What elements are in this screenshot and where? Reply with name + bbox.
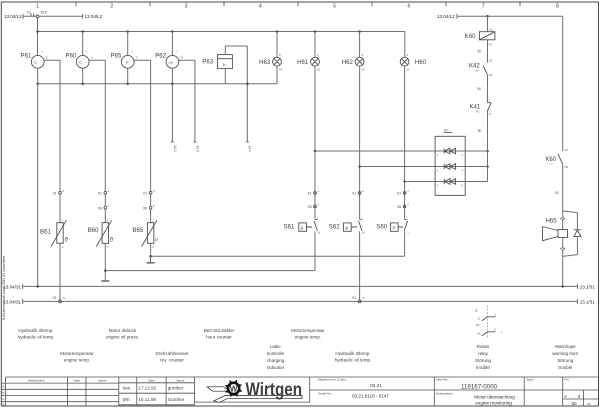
function text column S61 <box>291 328 325 340</box>
svg-text:Hydraulik öltemp.: Hydraulik öltemp. <box>18 328 53 333</box>
svg-text:G: G <box>136 55 138 59</box>
lamp H60 oil pressure warning <box>400 53 426 71</box>
gauge P65 engine oil pressure <box>111 50 138 75</box>
svg-text:b: b <box>2 391 4 395</box>
svg-text:Hydraulik öltemp.: Hydraulik öltemp. <box>335 351 370 356</box>
function text column S62 <box>335 351 372 363</box>
svg-text:Störung: Störung <box>475 358 491 363</box>
svg-text:03.21.0118 - 0147: 03.21.0118 - 0147 <box>352 393 389 398</box>
drawn/checked sub-table <box>119 377 195 405</box>
switch column S61: connectors X1 X6 <box>307 189 319 196</box>
svg-text:X1: X1 <box>397 192 401 196</box>
wire bus L2 top <box>38 31 405 33</box>
connector plug below horn <box>560 246 565 250</box>
contact K41 (NC) <box>469 103 491 117</box>
svg-text:bew.: bew. <box>123 385 131 390</box>
diode D3 in block row 3 <box>435 179 465 188</box>
svg-text:X1: X1 <box>98 191 102 195</box>
svg-text:Ident-No.:: Ident-No.: <box>436 378 450 382</box>
svg-text:trouble: trouble <box>558 365 572 370</box>
wire P63 top bend to off-sheet arrow <box>225 46 251 152</box>
wire H61 column down to switch S61 <box>314 66 316 219</box>
svg-text:13.1/31: 13.1/31 <box>580 285 596 290</box>
wire L2 to right stub with off-sheet label <box>39 14 103 19</box>
wire K42 to K41 <box>477 75 490 103</box>
svg-text:1B: 1B <box>474 309 477 313</box>
svg-text:H60: H60 <box>415 59 427 66</box>
sensor column B61: connector X1 <box>52 189 64 196</box>
svg-text:kontrolle: kontrolle <box>267 351 285 356</box>
svg-text:X1: X1 <box>307 192 311 196</box>
node L2 feed left: incoming wire from sheet 13.04 <box>4 14 36 19</box>
svg-text:Name: Name <box>98 378 107 382</box>
svg-text:S61: S61 <box>284 224 295 231</box>
svg-text:engine oil press.: engine oil press. <box>106 335 139 340</box>
svg-text:2: 2 <box>110 4 113 10</box>
svg-text:50: 50 <box>477 87 481 91</box>
spal / pruef cells <box>524 377 598 406</box>
svg-text:Serial-No.:: Serial-No.: <box>318 392 333 396</box>
machine key / serial cell <box>310 377 599 406</box>
svg-text:Motortemperatur: Motortemperatur <box>291 328 325 333</box>
svg-text:Modification: Modification <box>28 378 45 382</box>
svg-text:hydraulic oil temp.: hydraulic oil temp. <box>18 335 55 340</box>
svg-text:93: 93 <box>555 191 559 195</box>
wire right branch down to horn contact <box>562 16 564 151</box>
svg-text:P65: P65 <box>111 53 122 60</box>
wire S62 down to net X1/31 <box>359 231 361 300</box>
svg-text:H61: H61 <box>297 59 309 66</box>
svg-text:B61: B61 <box>40 228 51 235</box>
function text column P61 <box>18 328 55 340</box>
wire coil to contact K42 <box>477 40 492 63</box>
function text column P65 <box>106 328 139 340</box>
svg-text:Wirtgen: Wirtgen <box>246 380 303 400</box>
svg-text:Relais: Relais <box>477 344 490 349</box>
temperature sensor B60 <box>88 194 114 249</box>
revision row letters a-d <box>2 385 4 407</box>
svg-text:5: 5 <box>333 4 336 10</box>
svg-text:Machine Key Codes:: Machine Key Codes: <box>318 378 347 382</box>
wire B65 to ground and to S60 <box>149 243 152 262</box>
wire P65 right terminal to sensor column <box>134 60 151 191</box>
diode D2 in block row 2 <box>435 164 465 173</box>
wire diode rows right leads to relay chain <box>465 151 487 182</box>
svg-text:6: 6 <box>407 4 410 10</box>
svg-text:S62: S62 <box>329 224 340 231</box>
svg-text:64: 64 <box>476 68 479 72</box>
column index ticks on top frame <box>76 2 520 6</box>
relay coil K60 <box>465 27 495 46</box>
ground (chassis) at B60 <box>101 280 109 282</box>
node junction circle 15.6 <box>36 11 47 18</box>
svg-text:03.21: 03.21 <box>370 383 382 388</box>
svg-text:-: - <box>84 72 85 75</box>
lamp H63 charge indicator <box>259 53 283 71</box>
svg-text:P62: P62 <box>155 53 166 60</box>
svg-text:°C: °C <box>33 61 37 65</box>
function text column H65 <box>552 344 579 370</box>
svg-text:X1: X1 <box>352 192 356 196</box>
svg-text:1B: 1B <box>564 148 567 152</box>
wire P61 bottom to lower bus <box>37 68 39 84</box>
svg-text:min: min <box>168 60 173 64</box>
svg-text:H63: H63 <box>259 59 271 66</box>
svg-text:K2: K2 <box>279 68 283 72</box>
svg-text:P: P <box>155 238 158 243</box>
svg-text:B60: B60 <box>88 227 99 234</box>
svg-text:K2: K2 <box>362 68 366 72</box>
svg-text:Prf:: Prf: <box>565 378 570 382</box>
wire contact to horn <box>555 165 563 216</box>
svg-text:A2-: A2- <box>489 42 493 46</box>
svg-text:7: 7 <box>482 4 485 10</box>
wire horn bottom <box>562 238 564 247</box>
wire P60 right terminal to sensor column <box>89 60 105 191</box>
svg-text:W: W <box>230 384 238 393</box>
Wirtgen logo cell <box>195 377 310 402</box>
wire P60 bottom to lower bus <box>82 68 84 84</box>
switch column S62: connector X1 <box>352 189 364 196</box>
wire B61 down to net X1/31 <box>59 243 61 300</box>
wire P63 bottom to lower bus <box>224 69 226 84</box>
svg-text:-: - <box>39 72 40 75</box>
svg-text:Motor überwachung: Motor überwachung <box>474 395 515 400</box>
wire H63 bottom to lower bus <box>276 66 278 84</box>
svg-text:S60: S60 <box>376 224 387 231</box>
svg-text:warning horn: warning horn <box>552 351 579 356</box>
svg-text:gep.: gep. <box>123 397 131 402</box>
svg-text:Störung: Störung <box>557 358 573 363</box>
contact K60 (NO, horn circuit) <box>545 148 568 169</box>
svg-text:Motor öldruck: Motor öldruck <box>109 328 137 333</box>
Wirtgen logo swoosh ribbon <box>207 387 230 391</box>
svg-text:X6: X6 <box>307 205 311 209</box>
pressure sensor B65 <box>132 194 158 249</box>
hour counter P63 <box>202 55 232 69</box>
wire drops from bus to gauges <box>83 32 173 56</box>
svg-text:X1: X1 <box>27 10 31 14</box>
svg-text:13.04/L2: 13.04/L2 <box>437 14 455 19</box>
svg-text:N: N <box>63 296 65 300</box>
contact K42 (NO) <box>469 63 493 77</box>
svg-text:indicator: indicator <box>267 365 285 370</box>
wire lower bus drop to net 31 <box>37 84 39 287</box>
connector plug above horn <box>560 216 565 220</box>
svg-text:15.11.98: 15.11.98 <box>138 397 156 402</box>
svg-text:K60: K60 <box>465 33 476 40</box>
svg-text:H65: H65 <box>546 218 558 225</box>
svg-text:3: 3 <box>185 4 188 10</box>
svg-text:12: 12 <box>477 317 480 321</box>
svg-text:K2: K2 <box>407 68 411 72</box>
svg-text:8: 8 <box>556 4 559 10</box>
gauge P61 hydraulic oil temperature <box>21 50 48 75</box>
svg-text:d: d <box>2 403 4 407</box>
svg-text:ϑ: ϑ <box>110 237 114 244</box>
svg-text:°C: °C <box>78 61 82 65</box>
ground (chassis) at B65 <box>147 262 155 264</box>
svg-text:H62: H62 <box>342 59 354 66</box>
wire H62 column down to switch S62 <box>359 66 361 219</box>
svg-text:engine temp.: engine temp. <box>64 358 90 363</box>
gauge P62 rev counter <box>155 50 183 75</box>
wire P62 right terminal down to off-sheet arrow <box>179 60 200 152</box>
function text column K60 <box>475 344 491 370</box>
sensor column B60: connectors X1 X6 <box>98 189 110 196</box>
wire lower bus (gauge common) <box>38 83 277 85</box>
svg-text:13.04/L2: 13.04/L2 <box>4 14 22 19</box>
pressure switch S60 <box>376 216 409 234</box>
contact mirror of relay K60 <box>474 306 503 339</box>
function text column H63 <box>267 344 285 370</box>
svg-text:4: 4 <box>259 4 262 10</box>
svg-text:A1: A1 <box>444 129 448 133</box>
modification table (left) <box>1 377 119 406</box>
svg-text:X1: X1 <box>352 296 356 300</box>
svg-text:Designation:: Designation: <box>436 392 453 396</box>
svg-text:K2: K2 <box>317 68 321 72</box>
temperature sensor B61 <box>40 194 69 249</box>
Wirtgen logo gear emblem <box>225 380 243 398</box>
node dots on net 31 <box>36 285 564 288</box>
node dots on top bus <box>36 30 361 33</box>
svg-text:13.04/31: 13.04/31 <box>3 285 21 290</box>
node dots for diode block taps <box>314 150 406 183</box>
connector X1 on line B at B61 <box>52 296 65 303</box>
svg-text:X1: X1 <box>52 296 56 300</box>
svg-text:P60: P60 <box>66 53 77 60</box>
svg-text:hour counter: hour counter <box>206 335 232 340</box>
lamp H62 hydraulic oil temperature warning <box>342 53 366 71</box>
svg-text:Spal:: Spal: <box>527 378 534 382</box>
svg-text:Bl.:: Bl.: <box>564 394 569 398</box>
svg-text:Betr.Std.Zähler: Betr.Std.Zähler <box>204 328 235 333</box>
svg-text:Lade-: Lade- <box>270 344 282 349</box>
function text column P63 <box>204 328 235 340</box>
temperature switch S62 <box>329 216 366 234</box>
node dots on lower bus <box>36 82 248 85</box>
sensor column B65: connectors X1 X6 <box>143 189 155 196</box>
svg-text:rev. counter: rev. counter <box>160 358 184 363</box>
switch column S60: connectors X1 X6 <box>397 189 409 196</box>
wire drops from bus to lamps <box>277 32 405 58</box>
wire diode row 1 lead left <box>315 150 435 152</box>
wire B60 to ground and to S61 <box>104 243 107 281</box>
svg-text:trouble: trouble <box>476 365 490 370</box>
svg-text:1B: 1B <box>489 59 492 63</box>
svg-text:23: 23 <box>477 332 480 336</box>
suppressor diode V1 parallel to horn <box>563 211 581 257</box>
svg-text:1: 1 <box>36 4 39 10</box>
function text column P62 <box>155 351 189 363</box>
wire P62 column off-sheet arrow <box>171 84 177 152</box>
svg-text:14.4: 14.4 <box>248 146 252 152</box>
svg-text:engine monitoring: engine monitoring <box>475 401 512 406</box>
temperature switch S61 <box>284 216 321 234</box>
svg-text:-: - <box>129 72 130 75</box>
svg-text:13.1/31: 13.1/31 <box>580 300 596 305</box>
column numbers 1-8 <box>36 4 559 10</box>
svg-text:X6: X6 <box>143 207 147 211</box>
svg-text:P63: P63 <box>202 59 213 66</box>
title block top line <box>6 376 599 378</box>
svg-text:50: 50 <box>478 129 482 133</box>
svg-text:relay: relay <box>478 351 489 356</box>
wire horn to net 31 <box>562 250 564 287</box>
wire from X1 node down to bus <box>37 18 39 56</box>
connector X1 terminal ticks (top left) <box>27 10 34 16</box>
svg-text:engine temp.: engine temp. <box>295 335 321 340</box>
svg-text:14.3: 14.3 <box>195 146 199 152</box>
svg-text:50: 50 <box>572 401 578 406</box>
svg-text:a: a <box>2 385 4 389</box>
svg-text:13.04/L2: 13.04/L2 <box>85 14 103 19</box>
svg-text:14.2: 14.2 <box>173 146 177 152</box>
wire net 31 upper (line A) <box>3 284 595 290</box>
svg-text:Drehzahlmesser: Drehzahlmesser <box>155 351 189 356</box>
svg-text:Bl.: Bl. <box>588 402 592 406</box>
svg-text:Date: Date <box>74 378 81 382</box>
svg-text:X6: X6 <box>98 207 102 211</box>
gauge P60 engine temperature <box>66 50 93 75</box>
wire B60 node to S61 bottom <box>105 231 315 270</box>
svg-text:B65: B65 <box>132 227 143 234</box>
svg-text:Name: Name <box>176 378 185 382</box>
wire P62 bottom to lower bus <box>171 68 173 84</box>
svg-text:Date: Date <box>148 378 155 382</box>
function text column P60 <box>60 351 94 363</box>
svg-text:X1: X1 <box>143 191 147 195</box>
svg-text:charging: charging <box>267 358 285 363</box>
svg-text:P61: P61 <box>21 53 32 60</box>
svg-text:G: G <box>46 55 48 59</box>
wire diode row 3 lead left <box>405 181 436 183</box>
svg-text:17.12.92: 17.12.92 <box>138 386 156 391</box>
svg-text:A1+: A1+ <box>489 27 494 31</box>
node dots relay chain <box>486 150 489 168</box>
svg-text:50: 50 <box>477 49 481 53</box>
svg-text:G: G <box>91 55 93 59</box>
svg-text:-: - <box>174 72 175 75</box>
svg-text:Warnhupe: Warnhupe <box>555 344 576 349</box>
svg-text:X1: X1 <box>52 191 56 195</box>
wire diode row 2 lead left <box>360 166 436 168</box>
svg-text:A3: A3 <box>476 109 480 113</box>
horn H65 <box>543 218 568 241</box>
svg-text:Gunther: Gunther <box>168 397 185 402</box>
svg-text:X6: X6 <box>397 205 401 209</box>
connector X1 on line B at S62 <box>352 296 365 303</box>
wire P61 right terminal to sensor column <box>44 60 60 191</box>
svg-text:3: 3 <box>578 394 581 399</box>
wire net X1/31 lower (line B) <box>3 299 595 305</box>
svg-text:hydraulic oil temp.: hydraulic oil temp. <box>335 358 372 363</box>
wire K41 down to diode block rows <box>478 111 488 181</box>
svg-text:119167-0000: 119167-0000 <box>461 383 498 390</box>
svg-text:P: P <box>393 226 396 231</box>
wire H60 column down to switch S60 <box>404 66 406 219</box>
svg-text:gunther: gunther <box>168 386 184 391</box>
wire P65 bottom to lower bus <box>127 68 129 84</box>
diode D1 in block row 1 <box>435 148 465 157</box>
wire right feed down to relay coil <box>487 16 489 31</box>
lamp H61 engine temperature warning <box>297 53 321 71</box>
wire B65 node to S60 bottom <box>151 231 405 256</box>
svg-text:c: c <box>3 397 5 401</box>
svg-text:13.04/31: 13.04/31 <box>3 300 21 305</box>
svg-text:Motortemperatur: Motortemperatur <box>60 351 94 356</box>
svg-text:Schutzvermerk nach DIN 34 beac: Schutzvermerk nach DIN 34 beachten <box>2 256 6 320</box>
diode block A1 <box>435 129 465 196</box>
node L2 feed right <box>437 14 563 19</box>
svg-text:15.6: 15.6 <box>40 11 47 15</box>
